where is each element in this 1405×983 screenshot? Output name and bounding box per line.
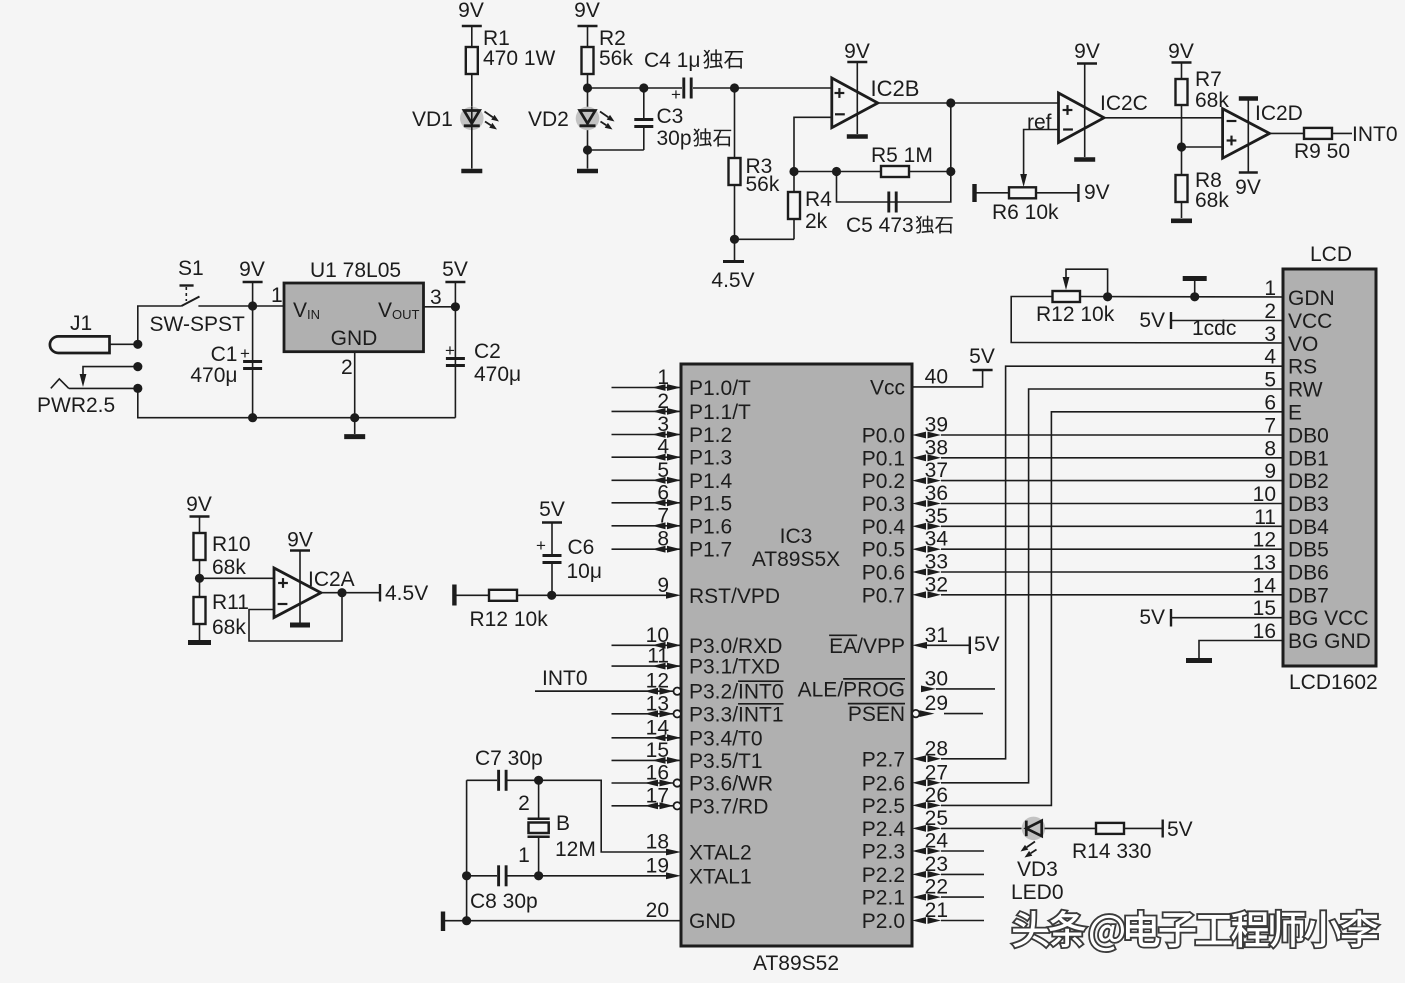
svg-text:37: 37 xyxy=(925,459,948,482)
regulator U1 78L05 xyxy=(284,259,424,352)
wire switch to node 9V xyxy=(198,305,284,307)
pin 1 P1.0/T xyxy=(612,366,752,400)
svg-text:C3: C3 xyxy=(657,105,684,128)
svg-text:P3.1/TXD: P3.1/TXD xyxy=(689,656,780,679)
svg-text:IC3: IC3 xyxy=(780,525,813,548)
node C5 left xyxy=(832,167,841,176)
node R2/VD2 xyxy=(583,83,592,92)
pin 7 P1.6 xyxy=(612,504,733,538)
svg-text:E: E xyxy=(1288,401,1302,424)
svg-text:38: 38 xyxy=(925,436,948,459)
svg-text:68k: 68k xyxy=(1195,189,1229,212)
label C4 1μ独石 xyxy=(644,49,743,72)
ground rail (power) xyxy=(138,388,456,417)
svg-text:5V: 5V xyxy=(539,498,565,521)
svg-text:14: 14 xyxy=(1253,574,1277,597)
pin 36 P0.3 xyxy=(862,482,948,516)
wire IC2A feedback xyxy=(249,593,342,641)
node rail U1 gnd xyxy=(350,413,359,422)
svg-text:16: 16 xyxy=(1253,620,1276,643)
svg-text:P0.5: P0.5 xyxy=(862,539,905,562)
node pot wiper xyxy=(1103,292,1112,301)
svg-text:Vcc: Vcc xyxy=(870,376,905,399)
node U1 output xyxy=(451,302,460,311)
pin 37 P0.2 xyxy=(862,459,948,493)
svg-text:21: 21 xyxy=(925,899,948,922)
svg-text:P0.0: P0.0 xyxy=(862,425,905,448)
node C4 left / C3 top xyxy=(639,83,648,92)
wire IC2C- to R6 wiper xyxy=(1020,130,1058,188)
svg-text:P2.0: P2.0 xyxy=(862,910,905,933)
svg-text:R6 10k: R6 10k xyxy=(992,201,1059,224)
capacitor C8 xyxy=(467,865,539,886)
svg-text:2: 2 xyxy=(1264,300,1276,323)
pin 35 P0.4 xyxy=(862,505,948,539)
svg-text:IC2C: IC2C xyxy=(1100,92,1148,115)
wire pot to GDN xyxy=(1080,296,1283,299)
LCD pin 2 VCC xyxy=(1264,300,1332,333)
pin 14 P3.4/T0 xyxy=(612,716,763,750)
svg-text:DB1: DB1 xyxy=(1288,447,1329,470)
svg-text:C1: C1 xyxy=(211,343,238,366)
svg-text:9V: 9V xyxy=(239,258,265,281)
wire P0.0 to DB0 xyxy=(941,434,1283,436)
node C8 right xyxy=(534,871,543,880)
svg-text:35: 35 xyxy=(925,505,948,528)
svg-text:R11: R11 xyxy=(212,591,249,614)
svg-text:RST/VPD: RST/VPD xyxy=(689,585,780,608)
resistor R5 xyxy=(881,166,909,177)
svg-text:RS: RS xyxy=(1288,356,1317,379)
pin 10 P3.0/RXD xyxy=(612,624,783,658)
svg-text:R12 10k: R12 10k xyxy=(1036,303,1115,326)
svg-text:C5 473: C5 473 xyxy=(846,214,914,237)
svg-text:C2: C2 xyxy=(474,340,501,363)
svg-text:VD3: VD3 xyxy=(1017,858,1058,881)
svg-text:IC2D: IC2D xyxy=(1255,102,1303,125)
wire IC2C output xyxy=(1104,117,1223,119)
node divider R10/R11 xyxy=(195,574,204,583)
svg-text:P1.0/T: P1.0/T xyxy=(689,377,751,400)
label 30p独石 (C3) xyxy=(657,127,732,150)
svg-text:+: + xyxy=(671,85,681,104)
crystal B 12M xyxy=(528,780,550,876)
svg-text:INT0: INT0 xyxy=(542,667,588,690)
svg-text:ALE/PROG: ALE/PROG xyxy=(798,678,905,701)
wire U1 out to 5V node xyxy=(424,306,456,308)
node C7 right xyxy=(534,776,543,785)
svg-text:C4 1μ: C4 1μ xyxy=(644,49,700,72)
ground (IC2B) xyxy=(847,134,868,139)
node GDN bar xyxy=(1190,292,1199,301)
wire C8 to XTAL1 xyxy=(539,875,666,877)
power 9V (IC2C) xyxy=(1074,40,1100,157)
svg-text:DB3: DB3 xyxy=(1288,493,1329,516)
pin 31 EA/VPP xyxy=(829,624,948,658)
svg-text:3: 3 xyxy=(430,286,442,309)
svg-text:+: + xyxy=(240,344,250,363)
svg-text:RW: RW xyxy=(1288,379,1323,402)
pin 11 P3.1/TXD xyxy=(612,645,781,679)
terminal 4.5V (IC2A) xyxy=(380,582,428,605)
pin 16 P3.6/WR xyxy=(612,762,774,796)
pin 6 P1.5 xyxy=(612,481,733,515)
svg-text:P0.4: P0.4 xyxy=(862,516,906,539)
LED VD2 xyxy=(576,88,615,150)
svg-text:11: 11 xyxy=(647,645,669,668)
svg-text:470 1W: 470 1W xyxy=(483,47,556,70)
svg-text:5V: 5V xyxy=(969,345,995,368)
node R3 bottom xyxy=(730,235,739,244)
wire EA/VPP to 5V xyxy=(927,633,1000,656)
capacitor C6 xyxy=(536,536,602,595)
resistor R7 xyxy=(1176,68,1230,147)
node rail C1 xyxy=(248,413,257,422)
pin 32 P0.7 xyxy=(862,573,948,607)
wire P0.7 to DB7 xyxy=(941,594,1283,596)
svg-text:12: 12 xyxy=(646,670,669,693)
svg-text:R9 50: R9 50 xyxy=(1294,140,1350,163)
LCD pin 12 DB5 xyxy=(1253,529,1329,562)
microcontroller IC3 AT89S5X body xyxy=(681,364,912,946)
svg-text:P3.3/INT1: P3.3/INT1 xyxy=(689,703,784,726)
node J1 middle xyxy=(133,362,142,371)
wire IC2B- to feedback node xyxy=(794,117,831,171)
LCD pin 9 DB2 xyxy=(1264,460,1329,493)
svg-text:P1.4: P1.4 xyxy=(689,470,733,493)
LCD pin 1 GDN xyxy=(1264,277,1334,310)
svg-text:PSEN: PSEN xyxy=(848,703,905,726)
svg-text:ref: ref xyxy=(1027,111,1052,134)
node VD2 bottom xyxy=(583,145,592,154)
pin 33 P0.6 xyxy=(862,551,948,585)
svg-text:28: 28 xyxy=(925,737,948,760)
svg-text:26: 26 xyxy=(925,784,948,807)
svg-text:P2.7: P2.7 xyxy=(862,748,905,771)
wire IC2D output xyxy=(1270,132,1305,134)
pin 29 PSEN xyxy=(848,692,948,726)
svg-text:P2.6: P2.6 xyxy=(862,772,905,795)
svg-text:BG GND: BG GND xyxy=(1288,630,1371,653)
wire J1 to node xyxy=(110,343,138,345)
svg-text:2: 2 xyxy=(341,356,353,379)
wire PWR arrow xyxy=(80,367,138,387)
svg-text:6: 6 xyxy=(1264,391,1276,414)
svg-text:P3.4/T0: P3.4/T0 xyxy=(689,727,763,750)
pin 19 XTAL1 xyxy=(646,854,752,888)
pin 15 P3.5/T1 xyxy=(612,739,763,773)
svg-text:24: 24 xyxy=(925,830,949,853)
svg-text:R14 330: R14 330 xyxy=(1072,840,1151,863)
svg-text:56k: 56k xyxy=(599,47,633,70)
svg-text:P3.5/T1: P3.5/T1 xyxy=(689,750,763,773)
wire P2.0 stub xyxy=(941,920,984,922)
ground (R11) xyxy=(188,640,211,645)
node R4 top (inverting) xyxy=(789,167,798,176)
power 9V (R1 branch) xyxy=(458,0,484,47)
wire feedback row R5 xyxy=(794,171,951,173)
op-amp IC2A xyxy=(274,568,321,618)
svg-text:1cdc: 1cdc xyxy=(1192,317,1236,340)
svg-text:17: 17 xyxy=(646,784,669,807)
LCD pin 10 DB3 xyxy=(1253,483,1329,516)
wire P0.5 to DB5 xyxy=(941,548,1283,550)
pin 9 RST/VPD xyxy=(657,574,780,608)
pin 8 P1.7 xyxy=(612,528,733,562)
terminal 5V (BG VCC) xyxy=(1139,606,1283,629)
svg-text:470μ: 470μ xyxy=(190,364,237,387)
svg-text:GND: GND xyxy=(689,910,736,933)
svg-text:1: 1 xyxy=(271,284,283,307)
svg-text:P0.2: P0.2 xyxy=(862,470,905,493)
svg-text:19: 19 xyxy=(646,854,669,877)
wire BG GND to ground xyxy=(1186,641,1283,661)
svg-text:8: 8 xyxy=(1264,437,1276,460)
wire C7 node to XTAL2 xyxy=(539,780,666,852)
LCD pin 14 DB7 xyxy=(1253,574,1329,607)
capacitor C7 xyxy=(467,770,539,791)
svg-text:10μ: 10μ xyxy=(567,560,602,583)
resistor R14 xyxy=(1096,823,1124,834)
svg-text:P1.1/T: P1.1/T xyxy=(689,401,751,424)
svg-text:1: 1 xyxy=(657,366,669,389)
svg-text:B: B xyxy=(556,812,570,835)
svg-text:9V: 9V xyxy=(1168,40,1194,63)
node IC2A output xyxy=(337,588,346,597)
label C5 473独石 xyxy=(846,214,953,237)
pin 26 P2.5 xyxy=(862,784,948,818)
svg-text:R4: R4 xyxy=(805,188,832,211)
svg-text:10: 10 xyxy=(646,624,669,647)
pin 2 P1.1/T xyxy=(612,390,752,424)
node gnd rail xyxy=(462,916,471,925)
svg-text:7: 7 xyxy=(657,504,669,527)
svg-text:9V: 9V xyxy=(574,0,600,22)
svg-text:68k: 68k xyxy=(212,556,246,579)
svg-text:4: 4 xyxy=(657,436,669,459)
pin 17 P3.7/RD xyxy=(612,784,769,818)
svg-text:P1.7: P1.7 xyxy=(689,539,732,562)
svg-text:34: 34 xyxy=(925,528,949,551)
svg-text:P2.4: P2.4 xyxy=(862,818,906,841)
svg-text:AT89S5X: AT89S5X xyxy=(752,548,840,571)
svg-text:C8 30p: C8 30p xyxy=(470,890,538,913)
wire R9 to INT0 xyxy=(1332,132,1352,134)
LCD pin 6 E xyxy=(1264,391,1302,424)
svg-text:15: 15 xyxy=(1253,597,1276,620)
svg-text:P2.3: P2.3 xyxy=(862,841,905,864)
wire ALE/PROG stub xyxy=(936,688,995,690)
node R7/R8 divider xyxy=(1177,142,1223,151)
svg-text:5: 5 xyxy=(657,459,669,482)
op-amp IC2B xyxy=(832,78,878,128)
svg-text:P2.1: P2.1 xyxy=(862,887,905,910)
op-amp IC2D xyxy=(1223,109,1270,159)
svg-text:P0.7: P0.7 xyxy=(862,584,905,607)
node C6/RST xyxy=(547,591,556,600)
power 9V (R10) xyxy=(186,493,212,533)
LCD pin 13 DB6 xyxy=(1253,552,1329,585)
pin 25 P2.4 xyxy=(862,807,948,841)
svg-text:SW-SPST: SW-SPST xyxy=(150,313,245,336)
resistor R2 xyxy=(582,27,634,88)
ground (IC2C) xyxy=(1074,157,1095,162)
svg-text:4.5V: 4.5V xyxy=(711,269,754,292)
svg-text:13: 13 xyxy=(1253,552,1276,575)
pin 5 P1.4 xyxy=(612,459,733,493)
pin 3 P1.2 xyxy=(612,413,733,447)
capacitor C5 branch xyxy=(837,172,951,213)
svg-text:14: 14 xyxy=(646,716,670,739)
svg-text:4.5V: 4.5V xyxy=(385,582,428,605)
svg-text:68k: 68k xyxy=(212,616,246,639)
svg-text:6: 6 xyxy=(657,481,669,504)
svg-text:LCD: LCD xyxy=(1310,243,1352,266)
wire R2 to C4 xyxy=(588,87,644,89)
svg-text:9V: 9V xyxy=(458,0,484,22)
svg-text:2: 2 xyxy=(518,792,530,815)
wire Vcc to 5V xyxy=(912,345,995,387)
LCD pin 16 BG GND xyxy=(1253,620,1371,653)
svg-text:5V: 5V xyxy=(1167,818,1193,841)
svg-text:P0.3: P0.3 xyxy=(862,493,905,516)
svg-text:EA/VPP: EA/VPP xyxy=(829,635,905,658)
svg-text:13: 13 xyxy=(646,692,669,715)
terminal 4.5V xyxy=(711,239,754,292)
op-amp IC2C xyxy=(1059,93,1105,143)
potentiometer R12 (contrast) xyxy=(1053,269,1108,302)
power 9V (R2 branch) xyxy=(574,0,600,47)
watermark 头条 @电子工程师小李 xyxy=(1013,911,1378,952)
svg-text:27: 27 xyxy=(925,761,948,784)
wire IC2B output xyxy=(878,102,1059,104)
wire R14 to 5V xyxy=(1124,818,1193,841)
svg-text:5V: 5V xyxy=(974,633,1000,656)
wire INT0 to P3.2 xyxy=(535,690,666,692)
pin 38 P0.1 xyxy=(862,436,948,470)
svg-text:P1.5: P1.5 xyxy=(689,492,732,515)
svg-text:9V: 9V xyxy=(1084,181,1110,204)
resistor R1 xyxy=(466,27,556,107)
pin 40 Vcc xyxy=(870,365,948,399)
svg-text:P2.5: P2.5 xyxy=(862,795,905,818)
svg-text:16: 16 xyxy=(646,762,669,785)
svg-text:7: 7 xyxy=(1264,415,1276,438)
terminal (GND left) xyxy=(441,912,445,932)
svg-text:XTAL1: XTAL1 xyxy=(689,865,752,888)
svg-text:4: 4 xyxy=(1264,346,1276,369)
wire P2.6 to RW xyxy=(941,389,1283,783)
left rail (crystal) xyxy=(466,780,468,920)
pin 34 P0.5 xyxy=(862,528,949,562)
svg-text:2: 2 xyxy=(657,390,669,413)
svg-text:9V: 9V xyxy=(1074,40,1100,63)
svg-text:INT0: INT0 xyxy=(1352,123,1398,146)
svg-text:XTAL2: XTAL2 xyxy=(689,842,752,865)
svg-text:PWR2.5: PWR2.5 xyxy=(37,394,115,417)
pin 27 P2.6 xyxy=(862,761,948,795)
LCD1602 body xyxy=(1283,243,1376,666)
pin 39 P0.0 xyxy=(862,414,948,448)
wire PSEN stub xyxy=(944,713,983,715)
resistor R9 xyxy=(1304,128,1332,139)
pin 24 P2.3 xyxy=(862,830,949,864)
LCD pin 3 VO xyxy=(1264,323,1318,356)
LED VD3 xyxy=(1021,817,1097,858)
svg-text:DB5: DB5 xyxy=(1288,539,1329,562)
svg-text:+: + xyxy=(536,536,546,555)
LCD pin 8 DB1 xyxy=(1264,437,1329,470)
wire P2.5 to E xyxy=(941,412,1283,806)
capacitor C1 xyxy=(190,306,262,418)
wire P2.4 to VD3 xyxy=(941,827,1022,829)
svg-text:5V: 5V xyxy=(1139,606,1165,629)
svg-text:VD2: VD2 xyxy=(528,108,569,131)
wire P2.3 stub xyxy=(941,850,984,852)
LCD pin 5 RW xyxy=(1264,369,1322,402)
svg-text:P0.6: P0.6 xyxy=(862,562,905,585)
svg-text:VCC: VCC xyxy=(1288,310,1332,333)
connector J1 xyxy=(50,312,110,353)
node S1/C1/9V xyxy=(248,301,257,310)
svg-text:20: 20 xyxy=(646,899,669,922)
capacitor C2 xyxy=(445,307,521,418)
svg-text:3: 3 xyxy=(657,413,669,436)
svg-text:R12 10k: R12 10k xyxy=(470,608,549,631)
svg-text:P0.1: P0.1 xyxy=(862,447,905,470)
svg-text:29: 29 xyxy=(925,692,948,715)
resistor R10 xyxy=(194,533,251,579)
pin 28 P2.7 xyxy=(862,737,948,771)
svg-text:470μ: 470μ xyxy=(474,363,521,386)
wire P0.1 to DB1 xyxy=(941,457,1283,459)
ground (VD1) xyxy=(461,169,482,174)
svg-text:IC2B: IC2B xyxy=(871,76,920,101)
svg-text:2k: 2k xyxy=(805,210,828,233)
node C4 right xyxy=(730,83,739,92)
svg-text:39: 39 xyxy=(925,414,948,437)
svg-text:IC2A: IC2A xyxy=(308,568,355,591)
svg-text:S1: S1 xyxy=(178,257,204,280)
svg-text:LCD1602: LCD1602 xyxy=(1289,671,1378,694)
pin 30 ALE/PROG xyxy=(798,667,948,701)
svg-text:BG VCC: BG VCC xyxy=(1288,607,1369,630)
ground (IC2A) xyxy=(290,623,310,628)
LCD pin 7 DB0 xyxy=(1264,415,1329,448)
ground (power rail) xyxy=(344,418,365,437)
LCD pin 4 RS xyxy=(1264,346,1317,379)
svg-text:33: 33 xyxy=(925,551,948,574)
svg-text:31: 31 xyxy=(925,624,948,647)
svg-text:P1.6: P1.6 xyxy=(689,515,732,538)
svg-text:5V: 5V xyxy=(1139,309,1165,332)
svg-text:9V: 9V xyxy=(186,493,212,516)
power 9V (IC2A) xyxy=(287,529,313,623)
svg-text:9: 9 xyxy=(657,574,669,597)
terminal (RST left) xyxy=(452,585,456,606)
svg-text:40: 40 xyxy=(925,365,948,388)
wire up to switch xyxy=(138,306,182,344)
svg-text:12M: 12M xyxy=(555,838,596,861)
pin 4 P1.3 xyxy=(612,436,733,470)
svg-text:C6: C6 xyxy=(568,536,595,559)
svg-text:DB2: DB2 xyxy=(1288,470,1329,493)
svg-text:C7 30p: C7 30p xyxy=(475,747,543,770)
svg-text:32: 32 xyxy=(925,573,948,596)
svg-text:VD1: VD1 xyxy=(412,108,453,131)
supply bar top (IC2D) xyxy=(1239,99,1258,172)
svg-text:25: 25 xyxy=(925,807,948,830)
